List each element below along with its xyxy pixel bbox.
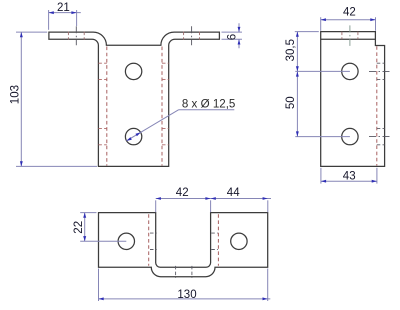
- svg-text:42: 42: [176, 187, 189, 199]
- dimension 44: [267, 200, 269, 212]
- svg-text:103: 103: [10, 85, 22, 104]
- hole left bottom view: [118, 233, 134, 249]
- dimension 43: [320, 168, 322, 184]
- dimension 50: [295, 70, 350, 72]
- svg-text:130: 130: [177, 289, 196, 301]
- side tab centerline: [349, 25, 351, 46]
- bottom bend line left (red): [148, 214, 150, 266]
- hidden hole edges across web: [176, 266, 192, 278]
- svg-text:6: 6: [226, 34, 238, 40]
- dimension 22: [80, 212, 96, 214]
- svg-text:50: 50: [285, 96, 297, 109]
- bracket outline side view: [321, 32, 385, 167]
- hole upper front: [125, 63, 141, 79]
- right tab hidden hole edges: [184, 32, 200, 40]
- svg-text:8 x Ø 12,5: 8 x Ø 12,5: [182, 97, 236, 110]
- hidden hole tangents left strip (red): [98, 63, 106, 145]
- side strip hidden hole tangents: [377, 63, 385, 145]
- left tab hidden hole edges: [68, 32, 84, 40]
- hole upper side: [342, 63, 358, 79]
- side tab hidden hole edges: [342, 32, 358, 40]
- tab bottom edge side view: [321, 38, 376, 40]
- bottom wall hidden hole tangents: [150, 233, 218, 249]
- dimension 130: [98, 269, 100, 302]
- hole lower front: [125, 128, 141, 144]
- svg-text:44: 44: [227, 187, 240, 199]
- svg-text:30,5: 30,5: [285, 39, 297, 61]
- bracket outline bottom view: [99, 213, 268, 277]
- hole lower side: [342, 128, 358, 144]
- leader 8 x Ø 12,5: [127, 110, 179, 141]
- svg-text:21: 21: [57, 2, 70, 14]
- bend line right (red dashed): [161, 47, 163, 166]
- hole centerline marks right: [369, 71, 390, 136]
- bend line left (red dashed): [106, 47, 108, 166]
- side bend line (red dashed): [376, 46, 378, 165]
- svg-text:42: 42: [343, 7, 356, 19]
- hole right bottom view: [231, 233, 247, 249]
- left tab centerline: [75, 26, 77, 45]
- bottom bend line right (red): [217, 214, 219, 266]
- svg-text:22: 22: [73, 221, 85, 234]
- dimension 6: [222, 31, 243, 33]
- dimension 103: [16, 31, 47, 33]
- dimension 21: [48, 10, 50, 30]
- svg-text:43: 43: [343, 170, 356, 182]
- bracket outline front view: [49, 32, 220, 166]
- dimension 42 bottom: [155, 200, 157, 212]
- dimension 42 top: [320, 17, 322, 31]
- dimension 30,5: [295, 31, 319, 33]
- hidden hole tangents right strip (red): [162, 63, 169, 145]
- right tab centerline: [191, 26, 193, 45]
